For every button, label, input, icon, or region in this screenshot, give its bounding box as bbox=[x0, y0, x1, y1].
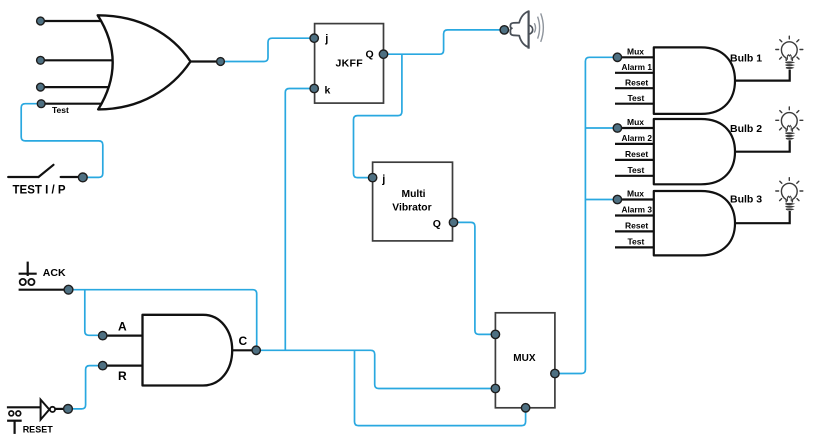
svg-text:k: k bbox=[325, 84, 331, 96]
svg-text:Vibrator: Vibrator bbox=[392, 202, 431, 213]
svg-text:Alarm 1: Alarm 1 bbox=[622, 62, 653, 72]
svg-text:Reset: Reset bbox=[625, 149, 648, 159]
svg-text:Mux: Mux bbox=[627, 189, 644, 199]
svg-text:RESET: RESET bbox=[23, 425, 54, 435]
svg-text:Reset: Reset bbox=[625, 221, 648, 231]
svg-text:Test: Test bbox=[628, 93, 645, 103]
svg-text:Test: Test bbox=[628, 237, 645, 247]
svg-text:Mux: Mux bbox=[627, 117, 644, 127]
svg-text:Bulb 1: Bulb 1 bbox=[730, 53, 762, 65]
svg-text:JKFF: JKFF bbox=[336, 58, 364, 70]
svg-text:j: j bbox=[324, 33, 328, 45]
svg-text:Reset: Reset bbox=[625, 77, 648, 87]
svg-text:Q: Q bbox=[366, 49, 374, 61]
svg-text:A: A bbox=[118, 320, 127, 334]
svg-text:Bulb 2: Bulb 2 bbox=[730, 123, 762, 135]
svg-text:Q: Q bbox=[433, 218, 441, 230]
svg-text:MUX: MUX bbox=[513, 353, 536, 364]
svg-text:Alarm 2: Alarm 2 bbox=[622, 133, 653, 143]
svg-text:Test: Test bbox=[628, 165, 645, 175]
svg-text:R: R bbox=[118, 369, 127, 383]
svg-text:TEST I / P: TEST I / P bbox=[13, 185, 66, 197]
svg-text:Bulb 3: Bulb 3 bbox=[730, 194, 762, 206]
svg-text:j: j bbox=[381, 174, 385, 186]
svg-text:Test: Test bbox=[52, 105, 69, 115]
svg-text:Multi: Multi bbox=[402, 189, 426, 200]
svg-text:ACK: ACK bbox=[43, 267, 66, 279]
svg-text:Mux: Mux bbox=[627, 47, 644, 57]
svg-text:C: C bbox=[239, 334, 248, 348]
svg-text:Alarm 3: Alarm 3 bbox=[622, 205, 653, 215]
